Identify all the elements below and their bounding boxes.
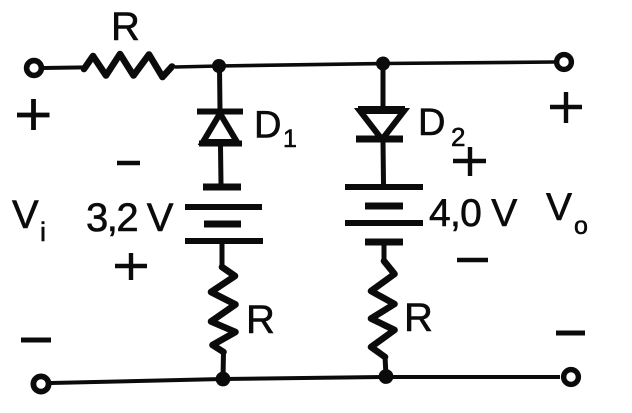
svg-text:4,0 V: 4,0 V: [429, 192, 517, 235]
svg-text:R: R: [111, 5, 140, 49]
svg-text:1: 1: [283, 125, 297, 153]
svg-text:R: R: [404, 296, 433, 340]
svg-text:i: i: [40, 217, 46, 247]
svg-text:R: R: [246, 298, 275, 342]
svg-text:V: V: [12, 193, 39, 237]
svg-text:o: o: [574, 212, 588, 240]
svg-text:3,2 V: 3,2 V: [86, 196, 174, 240]
svg-text:D: D: [418, 102, 445, 144]
svg-text:2: 2: [451, 122, 465, 152]
svg-text:V: V: [546, 186, 572, 229]
svg-text:D: D: [254, 105, 281, 147]
